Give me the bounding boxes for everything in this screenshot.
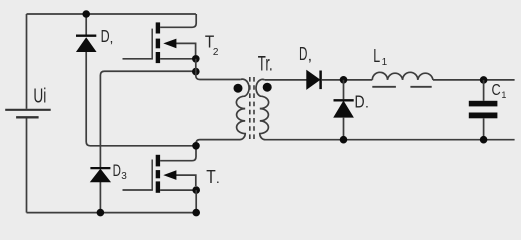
- T2 source lead: [160, 58, 196, 60]
- battery Ui long plate: [5, 109, 51, 111]
- wire L1 to output: [433, 79, 515, 81]
- node A junction dot (T2 source / D3 / primary top): [192, 68, 200, 76]
- wire top rail: [27, 13, 196, 15]
- wire D1 cathode to node C: [321, 79, 372, 81]
- node C1 bottom junction dot: [480, 136, 488, 144]
- svg-text:D: D: [113, 162, 121, 180]
- T1 body arrow line down to source node: [175, 175, 196, 186]
- T2 body segment: [156, 39, 160, 49]
- svg-text:.: .: [365, 95, 369, 111]
- transformer Tr secondary winding: [256, 79, 515, 139]
- diode D4 cathode bar: [334, 99, 354, 101]
- wire T1 source to bottom rail: [195, 190, 197, 213]
- node B junction dot (primary bottom / T1 drain / D2): [192, 142, 200, 150]
- T2 body arrow line down to source node: [175, 43, 196, 55]
- svg-text:T: T: [206, 166, 216, 187]
- wire left rail upper: [26, 14, 28, 109]
- wire D3 anode to bottom rail: [99, 182, 101, 213]
- T1 drain segment: [156, 155, 160, 167]
- diode D2 cathode bar: [76, 35, 96, 37]
- inductor L1 humps: [372, 72, 433, 80]
- transformer core dashed lines: [249, 77, 251, 141]
- T2 drain segment: [156, 22, 160, 33]
- diode D4 freewheel: wire from node C down: [343, 80, 345, 99]
- svg-text:C: C: [492, 82, 501, 99]
- wire D2 anode down and right to node B: [86, 52, 196, 146]
- T1 drain lead up to node B: [160, 149, 196, 161]
- svg-text:,: ,: [308, 48, 312, 65]
- wire C1 top: [483, 80, 485, 101]
- wire secondary top lead to D1: [265, 79, 307, 81]
- T1 body segment: [156, 170, 160, 178]
- svg-text:Tr.: Tr.: [258, 53, 273, 76]
- node D2 top rail junction dot: [82, 10, 90, 18]
- T1 source lead: [160, 189, 196, 191]
- wire left rail lower: [26, 118, 28, 212]
- T1 gate lead: [123, 189, 153, 191]
- node bottom rail corner junction dot: [192, 209, 200, 217]
- node source T2 junction dot: [192, 55, 200, 63]
- transformer Tr primary winding: [196, 79, 249, 146]
- svg-text:Ui: Ui: [33, 85, 46, 107]
- transistor T1 (lower MOSFET): [123, 149, 220, 193]
- wire D3 cathode up and right to node A: [100, 71, 195, 168]
- node C junction dot (D1/D4/L1): [340, 76, 348, 84]
- T2 drain lead to top rail: [160, 14, 196, 27]
- inductor L1 core bar right: [410, 86, 431, 88]
- T2 source segment: [156, 52, 160, 63]
- T1 source segment: [156, 181, 160, 192]
- svg-text:1: 1: [382, 57, 388, 68]
- transformer secondary polarity dot: [263, 83, 272, 92]
- battery Ui short plate: [16, 116, 38, 118]
- T2 gate lead: [123, 58, 153, 60]
- svg-text:D: D: [299, 43, 307, 64]
- svg-text:3: 3: [121, 171, 127, 182]
- inductor L1 core bar left: [372, 86, 396, 88]
- svg-text:D: D: [101, 26, 110, 46]
- node C1 top junction dot: [480, 76, 488, 84]
- wire D4 anode to bottom rail: [343, 117, 345, 140]
- svg-text:,: ,: [110, 29, 114, 45]
- T2 gate line: [151, 29, 153, 59]
- diode D2 triangle: [77, 38, 96, 51]
- node D3 bottom rail junction dot: [97, 209, 105, 217]
- diode D3 cathode bar: [90, 167, 110, 169]
- wire bottom rail: [27, 212, 197, 214]
- diode D3 triangle: [91, 169, 110, 181]
- svg-text:L: L: [373, 45, 380, 66]
- capacitor C1 plate 2: [469, 113, 498, 119]
- T1 body arrowhead: [163, 170, 176, 180]
- svg-text:1: 1: [501, 90, 506, 100]
- node T1 source junction dot: [192, 186, 200, 194]
- wire node A to primary top lead: [196, 72, 241, 80]
- diode D1 cathode bar: [319, 71, 322, 90]
- wire C1 bottom: [483, 118, 485, 139]
- svg-text:.: .: [216, 170, 220, 186]
- transistor T2 (upper MOSFET): [123, 14, 219, 63]
- node D4 bottom junction dot: [340, 136, 348, 144]
- T1 gate line: [151, 160, 153, 191]
- transformer primary polarity dot: [234, 84, 243, 93]
- wire D2 cathode to rail: [85, 14, 87, 35]
- svg-text:2: 2: [213, 47, 219, 58]
- T2 body arrowhead: [163, 39, 176, 49]
- wire node to node: [195, 59, 197, 72]
- diode D1 triangle: [307, 71, 320, 89]
- capacitor C1 plate 1: [469, 101, 498, 107]
- diode D4 triangle: [334, 102, 353, 118]
- svg-text:D: D: [355, 91, 365, 111]
